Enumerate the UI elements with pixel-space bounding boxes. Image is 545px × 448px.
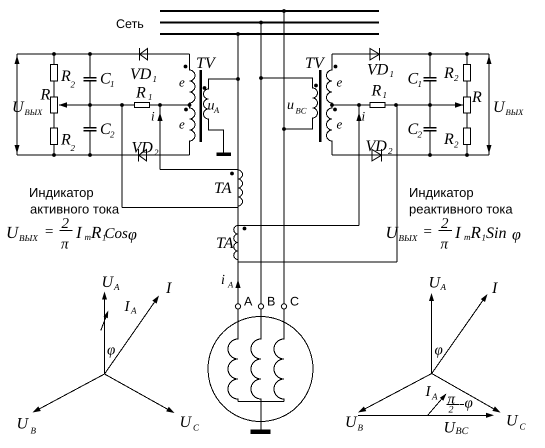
svg-text:i: i (151, 109, 155, 124)
svg-text:U: U (180, 414, 193, 431)
vector UB right (358, 374, 432, 413)
label R2 bottom-right (443, 131, 459, 150)
diode VD2 left (139, 149, 147, 162)
label C (290, 295, 299, 309)
label uBC (287, 98, 307, 116)
wire TA2 bottom lead (238, 105, 397, 262)
wire right bottom rail (332, 154, 489, 156)
node left rail dots (52, 52, 92, 157)
svg-text:U: U (102, 274, 115, 291)
current transformer TA2 winding (234, 226, 238, 260)
svg-text:u: u (287, 98, 294, 113)
vector IA left (101, 311, 109, 331)
label B (267, 295, 275, 309)
label I left (165, 280, 172, 297)
polarity dot TV left top (184, 65, 188, 69)
svg-text:2: 2 (71, 80, 76, 90)
label VD2 left (132, 140, 160, 158)
label TV right (305, 55, 326, 72)
wire phase B (260, 23, 262, 306)
wire TA2 top lead (238, 105, 359, 226)
resistor R2 bottom-left (51, 128, 58, 155)
diode VD1 left (140, 48, 148, 61)
label R1 right (371, 83, 388, 101)
ground under uA (217, 153, 232, 157)
svg-text:Sin: Sin (486, 225, 506, 242)
svg-text:2: 2 (388, 146, 393, 156)
svg-text:VD: VD (366, 138, 388, 155)
vector UC left (105, 374, 175, 413)
svg-text:U: U (345, 414, 358, 431)
polarity dot uA (203, 86, 207, 90)
net line L3 (160, 33, 379, 35)
svg-text:2: 2 (62, 216, 70, 232)
resistor R2 top-right (464, 54, 471, 97)
vector UA right (429, 293, 434, 374)
svg-text:e: e (179, 75, 185, 90)
svg-text:ВЫХ: ВЫХ (399, 233, 418, 243)
svg-text:C: C (290, 295, 299, 309)
wire left Uout measure line (15, 54, 20, 155)
svg-text:BC: BC (456, 426, 469, 437)
svg-text:реактивного тока: реактивного тока (409, 202, 513, 217)
svg-text:1: 1 (110, 79, 115, 89)
label TA1 (214, 180, 232, 197)
svg-text:Сеть: Сеть (116, 17, 144, 31)
label uA (208, 99, 221, 116)
transformer TV right primary winding e bottom (327, 105, 332, 155)
svg-text:R: R (40, 87, 51, 104)
label C2 left (100, 121, 115, 140)
svg-text:1: 1 (390, 69, 395, 79)
node uBC to phase B (259, 76, 263, 80)
svg-text:VD: VD (130, 66, 152, 83)
svg-text:ВЫХ: ВЫХ (25, 107, 44, 117)
label C1 left (100, 71, 115, 90)
node R1 right terminal (158, 103, 162, 107)
label IA left (124, 299, 138, 316)
svg-text:ВЫХ: ВЫХ (19, 233, 38, 243)
vector UA left (102, 292, 107, 375)
motor coil phase B (251, 309, 261, 402)
label iA (221, 273, 234, 290)
motor coil phase A (228, 309, 238, 402)
net line L2 (160, 22, 379, 24)
wire right top rail (332, 53, 489, 55)
svg-text:R: R (470, 223, 482, 242)
node C1C2 junction left (88, 103, 92, 107)
svg-text:VD: VD (367, 62, 389, 79)
svg-text:R: R (60, 68, 71, 85)
svg-text:B: B (358, 423, 364, 433)
svg-text:активного тока: активного тока (30, 202, 120, 217)
node TV left center tap (188, 103, 192, 107)
current arrow i right (356, 113, 361, 122)
label R2 top-left (60, 68, 76, 90)
svg-text:A: A (244, 295, 253, 309)
formula right Uvyx=2/pi Im R1 Sin phi (386, 216, 522, 253)
wire motor neutral stem (260, 402, 262, 430)
svg-text:I: I (124, 299, 131, 315)
svg-text:1: 1 (148, 92, 153, 102)
formula left Uvyx=2/pi Im R1 Cos phi (6, 216, 137, 253)
label UB left (17, 416, 37, 436)
label e top left (179, 75, 185, 90)
vector UB left (33, 374, 105, 413)
svg-text:B: B (267, 295, 275, 309)
node phase A tap (236, 32, 240, 36)
transformer TV left primary winding e bottom (190, 105, 196, 155)
ground motor (251, 430, 271, 434)
label C2 right (408, 121, 423, 140)
svg-text:e: e (337, 117, 343, 132)
svg-text:TA: TA (214, 180, 232, 197)
svg-text:R: R (90, 223, 102, 242)
label phi right (435, 343, 443, 359)
svg-text:2: 2 (449, 405, 454, 416)
node TV right center tap (330, 103, 334, 107)
svg-text:VD: VD (132, 140, 154, 157)
current arrow i left (157, 113, 162, 122)
potentiometer R right (464, 97, 471, 128)
svg-text:I: I (491, 280, 498, 297)
label VD1 right (367, 62, 394, 80)
svg-text:2: 2 (71, 143, 76, 153)
label UC right (506, 413, 527, 432)
node phase B tap (259, 21, 263, 25)
winding uBC primary (261, 78, 318, 129)
capacitor C2 right (424, 127, 437, 155)
svg-text:I: I (165, 280, 172, 297)
diode VD2 right (372, 149, 382, 162)
polarity dot TV right bottom (333, 108, 337, 112)
svg-text:i: i (221, 273, 225, 288)
resistor R2 bottom-right (464, 128, 471, 155)
label R pot left (40, 87, 51, 104)
label Uvyx right (493, 99, 524, 117)
svg-text:U: U (493, 99, 506, 116)
wire left bottom rail (17, 154, 190, 156)
resistor R2 top-left (51, 54, 58, 97)
svg-text:2: 2 (454, 73, 459, 83)
label TA2 (216, 235, 234, 252)
svg-text:φ: φ (107, 343, 115, 359)
node phase C tap (282, 9, 286, 13)
node R1 right circuit terminals (357, 103, 398, 107)
svg-text:2: 2 (418, 130, 423, 140)
label R2 top-right (443, 65, 459, 83)
polarity dot TV left bottom (184, 108, 188, 112)
current transformer TA1 winding (238, 170, 243, 206)
svg-text:TV: TV (196, 55, 217, 72)
svg-text:R: R (371, 83, 382, 100)
polarity dot TA1 (230, 172, 234, 176)
winding uA secondary (204, 79, 239, 153)
terminal B (258, 304, 263, 309)
label I right (491, 280, 498, 297)
label phi left (107, 343, 115, 359)
svg-text:ВЫХ: ВЫХ (506, 107, 525, 117)
svg-text:U: U (506, 413, 519, 430)
svg-text:2: 2 (454, 140, 459, 150)
wire TA1 bottom lead (122, 105, 238, 208)
svg-text:Cos: Cos (105, 226, 129, 242)
svg-text:TA: TA (216, 235, 234, 252)
label UB right (345, 414, 364, 433)
label VD2 right (366, 138, 394, 156)
resistor R1 left (135, 102, 150, 107)
svg-text:e: e (179, 117, 185, 132)
node C1C2 junction right (428, 103, 432, 107)
wire phase C (283, 11, 285, 305)
svg-text:C: C (520, 422, 527, 432)
transformer TV left primary winding e top (190, 54, 196, 105)
svg-text:A: A (431, 392, 438, 402)
svg-text:A: A (227, 280, 234, 290)
wire right middle (wiper) (332, 102, 463, 107)
diode VD1 right (370, 48, 380, 61)
label R pot right (471, 89, 482, 106)
svg-text:TV: TV (305, 55, 326, 72)
label UC left (180, 414, 201, 433)
node right rail dots (428, 52, 469, 157)
svg-text:φ: φ (465, 396, 473, 412)
label e top right (337, 75, 343, 90)
svg-text:π: π (441, 237, 449, 253)
motor circle (208, 317, 313, 422)
label UBC right (444, 420, 469, 438)
label C1 right (408, 71, 423, 90)
vector UBC right (358, 413, 494, 418)
svg-text:U: U (17, 416, 30, 433)
wire phase A (237, 34, 239, 305)
node uA to phase A (236, 77, 240, 81)
svg-text:U: U (12, 99, 25, 116)
svg-text:U: U (6, 223, 20, 242)
label e bottom left (179, 117, 185, 132)
svg-text:U: U (386, 223, 400, 242)
label Uvyx left (12, 99, 43, 117)
svg-text:A: A (213, 105, 220, 115)
label R2 bottom-left (60, 132, 76, 154)
svg-text:I: I (425, 384, 432, 400)
vector I right (432, 294, 488, 374)
svg-text:2: 2 (441, 216, 449, 232)
svg-text:1: 1 (383, 90, 388, 100)
svg-text:π: π (61, 237, 69, 253)
label i left (151, 109, 155, 124)
svg-text:1: 1 (153, 74, 158, 84)
terminal A (235, 304, 240, 309)
net line L1 (160, 10, 379, 12)
core TV right (319, 70, 322, 142)
net label Сеть (116, 17, 144, 31)
svg-text:A: A (113, 282, 120, 292)
svg-text:R: R (471, 89, 482, 106)
resistor R1 right (370, 102, 385, 107)
potentiometer R left (51, 97, 68, 128)
wire TA1 top lead (160, 105, 238, 170)
transformer TV right primary winding e top (327, 54, 332, 105)
label i right (362, 109, 366, 124)
label text indicator reactive (409, 185, 513, 217)
label VD1 left (130, 66, 157, 84)
capacitor C1 right (424, 54, 437, 127)
svg-text:=: = (44, 224, 54, 240)
svg-text:R: R (60, 132, 71, 149)
label UA right (429, 275, 447, 293)
svg-text:2: 2 (110, 130, 115, 140)
svg-text:1: 1 (418, 79, 423, 89)
label TV left (196, 55, 217, 72)
node uBC to phase C (282, 127, 286, 131)
wire left middle (wiper) (59, 104, 190, 106)
current arrow iA phase A (235, 280, 240, 289)
motor coil phase C (274, 309, 284, 402)
svg-text:e: e (337, 75, 343, 90)
label pi over 2 minus phi (447, 392, 473, 416)
vector UC right (432, 374, 501, 413)
svg-text:A: A (130, 306, 137, 316)
label A (244, 295, 253, 309)
vector IA right (428, 394, 447, 416)
wire motor star connector (238, 401, 284, 403)
polarity dot TA2 (243, 227, 247, 231)
label IA right (425, 384, 439, 402)
svg-text:BC: BC (296, 106, 307, 116)
svg-text:R: R (443, 131, 454, 148)
svg-text:B: B (31, 426, 37, 436)
svg-text:C: C (193, 423, 200, 433)
wire right Uout measure line (487, 54, 492, 155)
svg-text:A: A (440, 282, 447, 292)
polarity dot TV right top (334, 65, 338, 69)
label R1 left (135, 85, 153, 103)
vector I left (105, 296, 160, 375)
svg-text:Индикатор: Индикатор (29, 185, 94, 200)
label text indicator active (29, 185, 120, 217)
svg-text:R: R (443, 65, 454, 82)
svg-text:φ: φ (435, 343, 443, 359)
svg-text:=: = (423, 224, 433, 240)
capacitor C2 left (84, 127, 97, 155)
polarity dot uBC (314, 84, 318, 88)
label e bottom right (337, 117, 343, 132)
wire left top rail (17, 53, 190, 55)
core TV left (199, 70, 202, 142)
svg-text:R: R (135, 85, 146, 102)
label UA left (102, 274, 121, 292)
svg-text:φ: φ (512, 227, 521, 244)
node R1 left terminal (120, 103, 124, 107)
svg-text:φ: φ (128, 227, 137, 244)
svg-text:2: 2 (154, 148, 159, 158)
svg-text:i: i (362, 109, 366, 124)
terminal C (281, 304, 286, 309)
svg-text:Индикатор: Индикатор (409, 185, 474, 200)
capacitor C1 left (84, 54, 97, 127)
